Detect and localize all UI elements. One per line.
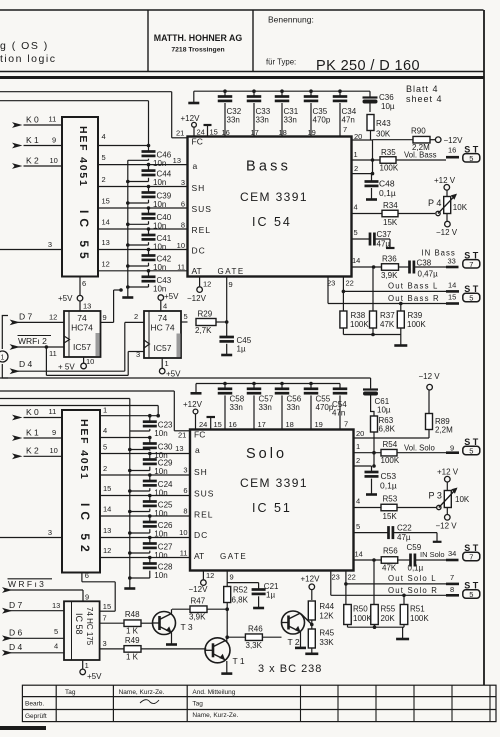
wire IC55 pin 3 to left edge <box>0 240 62 250</box>
svg-text:1: 1 <box>356 442 360 451</box>
wire IC52 pin 12 to CEM AT <box>100 546 190 558</box>
svg-text:R47: R47 <box>191 597 206 606</box>
svg-text:10: 10 <box>179 528 187 537</box>
svg-text:10n: 10n <box>154 467 167 476</box>
ground tick after C22 <box>433 541 442 543</box>
svg-text:−12V: −12V <box>187 294 207 303</box>
svg-text:K 0: K 0 <box>26 114 39 124</box>
svg-text:5: 5 <box>184 312 188 321</box>
wire IC52 pin 3 to left edge <box>0 528 62 538</box>
wire IC52 pin 14 to CEM REL <box>100 505 190 517</box>
svg-text:470p: 470p <box>313 116 331 125</box>
capacitor C35 470p <box>304 89 331 136</box>
svg-text:a: a <box>193 161 198 171</box>
wire CEM 54 pin 2 to C48 <box>352 160 375 181</box>
svg-text:Benennung:: Benennung: <box>268 15 314 25</box>
svg-text:11: 11 <box>180 549 188 558</box>
wire CEM 54 pin 14 to R36 <box>352 256 382 269</box>
svg-text:14: 14 <box>103 505 111 514</box>
resistor R56 47K <box>381 547 410 573</box>
svg-text:FC: FC <box>192 137 203 147</box>
wire IC55 pin 5 to CEM a pin 13 <box>98 153 188 165</box>
resistor R50 100K on Out Solo L <box>344 584 373 625</box>
+5V terminal at IC57a pin 13 and IC55 pin 6 <box>58 277 91 311</box>
input D6 arrow to IC58 pin 5 <box>2 627 64 641</box>
svg-text:7: 7 <box>450 573 454 582</box>
svg-text:17: 17 <box>258 420 266 429</box>
svg-text:14: 14 <box>448 281 456 290</box>
resistor R90 2,2M to -12V <box>373 127 464 153</box>
svg-text:21: 21 <box>176 129 184 138</box>
-12V terminal at CEM 51 pin 12 <box>189 571 215 595</box>
ground under R39 <box>394 344 407 347</box>
node gate-R47 junction <box>225 607 229 611</box>
svg-text:C37: C37 <box>377 230 392 239</box>
svg-text:100K: 100K <box>353 614 372 623</box>
net label Out Bass L to connector pin 14 <box>388 281 459 292</box>
wire IC52 pin 2 to CEM SH <box>100 464 190 475</box>
-12V terminal at CEM 54 pin 12 <box>187 277 211 303</box>
svg-text:100K: 100K <box>410 614 429 623</box>
svg-text:1µ: 1µ <box>266 591 275 600</box>
net label Out Bass R to connector ST5 pin 15 <box>388 284 480 304</box>
ground under C45 <box>221 354 232 357</box>
svg-text:23: 23 <box>327 279 335 288</box>
svg-text:+ 5V: + 5V <box>58 363 75 372</box>
resistor R54 100K <box>381 440 447 465</box>
resistor R39 100K on Out Bass R <box>397 302 426 329</box>
svg-text:8: 8 <box>183 507 187 516</box>
svg-text:a: a <box>195 445 200 455</box>
svg-text:And. Mitteilung: And. Mitteilung <box>192 689 235 696</box>
svg-text:47K: 47K <box>380 320 395 329</box>
svg-text:1: 1 <box>354 150 358 159</box>
svg-text:+5V: +5V <box>58 294 73 303</box>
svg-text:15: 15 <box>210 128 218 137</box>
transistor T2 BC238 <box>282 611 305 647</box>
svg-text:6: 6 <box>82 279 86 288</box>
svg-text:R54: R54 <box>383 440 398 449</box>
svg-text:3: 3 <box>48 240 52 249</box>
net label Vol.Solo to connector ST5 pin 9 <box>404 437 480 456</box>
pin numbers on CEM 51 left side <box>175 444 187 558</box>
svg-text:IC 51: IC 51 <box>252 501 292 515</box>
svg-text:IC 55: IC 55 <box>77 210 91 264</box>
svg-text:+5V: +5V <box>166 370 181 379</box>
svg-text:R51: R51 <box>410 605 425 614</box>
svg-text:R35: R35 <box>381 148 396 157</box>
svg-text:12: 12 <box>103 546 111 555</box>
wire Bass top bus <box>194 91 370 95</box>
svg-text:Out Bass L: Out Bass L <box>388 282 439 291</box>
svg-text:10n: 10n <box>154 489 167 498</box>
svg-text:D 7: D 7 <box>19 312 33 322</box>
svg-text:22: 22 <box>348 573 356 582</box>
wire IC52 pin 4 line <box>100 426 150 438</box>
svg-text:9: 9 <box>52 428 56 437</box>
svg-text:AT: AT <box>192 266 202 276</box>
svg-text:R46: R46 <box>248 625 263 634</box>
wire CEM 54 pin 23 stub to Out Bass R <box>327 277 446 304</box>
svg-text:DC: DC <box>192 246 206 256</box>
svg-text:9: 9 <box>52 136 56 145</box>
svg-text:33n: 33n <box>284 116 297 125</box>
svg-text:15K: 15K <box>383 218 398 227</box>
ground under R51 <box>396 638 409 641</box>
resistor R47 3,9K <box>172 597 227 622</box>
svg-text:20: 20 <box>356 429 364 438</box>
resistor R36 3,9K <box>381 255 410 281</box>
svg-text:4: 4 <box>103 426 107 435</box>
capacitor C24 10n <box>130 473 173 497</box>
ground under C21 <box>253 607 264 610</box>
resistor R35 100K <box>380 148 447 173</box>
capacitor C59 0,1u <box>407 543 447 573</box>
svg-text:1: 1 <box>165 359 169 368</box>
svg-text:8: 8 <box>450 585 454 594</box>
svg-text:R34: R34 <box>383 201 398 210</box>
wire T3 collector to R47 <box>171 609 173 613</box>
svg-text:33n: 33n <box>259 403 272 412</box>
svg-text:6: 6 <box>85 571 89 580</box>
wire Solo hold-bus line from left edge <box>0 399 130 432</box>
+5V terminal at IC57b pin 4 <box>158 292 179 311</box>
capacitor C53 0,1u <box>365 471 397 494</box>
sheet number Blatt 4 sheet 4 <box>406 84 443 104</box>
svg-text:Solo: Solo <box>246 446 287 462</box>
wire IC55 pin 4 riser to left edge <box>0 101 149 146</box>
svg-text:10n: 10n <box>153 263 166 272</box>
svg-text:9: 9 <box>85 593 89 602</box>
+5V terminal at IC57b pin 1 <box>159 358 181 379</box>
svg-text:R45: R45 <box>319 629 334 638</box>
wire IC55 pin 14 to CEM REL pin 8 <box>98 218 188 230</box>
title text MATTH. HOHNER AG <box>154 33 243 54</box>
wire IC55 pin 15 to CEM SUS pin 6 <box>98 197 188 209</box>
pin 15 termination bar on CEM 51 <box>207 417 222 430</box>
svg-text:S T: S T <box>464 581 479 591</box>
svg-text:4: 4 <box>54 642 58 651</box>
svg-text:15K: 15K <box>383 512 398 521</box>
wire CEM 54 pin 20 node <box>352 132 373 160</box>
resistor R49 1K <box>124 636 206 662</box>
svg-text:−12 V: −12 V <box>436 522 458 531</box>
svg-text:3: 3 <box>136 350 140 359</box>
wire T1 collector node <box>226 637 228 642</box>
wire IC52 pin 5 to CEM a <box>100 443 190 454</box>
svg-text:10n: 10n <box>154 429 167 438</box>
resistor R89 2,2M <box>374 414 453 439</box>
wire CEM 54 GATE pin 9 riser <box>227 277 233 322</box>
svg-text:12: 12 <box>49 313 57 322</box>
wire CEM 54 pin 1 volume line <box>352 150 381 162</box>
svg-text:g ( OS ): g ( OS ) <box>0 40 49 52</box>
input WRF1-2 arrow to IC57a clock pin 11 <box>10 336 64 359</box>
svg-text:R52: R52 <box>233 586 248 595</box>
svg-text:R55: R55 <box>381 605 396 614</box>
svg-text:3,3K: 3,3K <box>246 641 263 650</box>
capacitor C33 33n <box>247 89 271 136</box>
svg-text:Out Bass R: Out Bass R <box>388 294 440 303</box>
input D7 arrow to IC57a pin 12 <box>10 312 64 326</box>
svg-text:SH: SH <box>192 183 206 193</box>
svg-text:Vol. Bass: Vol. Bass <box>404 151 437 160</box>
svg-text:12K: 12K <box>319 612 334 621</box>
svg-text:3,9K: 3,9K <box>381 271 398 280</box>
resistor R38 100K on Out Bass L <box>340 291 369 329</box>
-12V terminal below P4 <box>436 214 458 238</box>
capacitor C25 10n <box>130 494 173 518</box>
ground under T3 emitter <box>166 633 177 645</box>
+5V terminal at IC57a pin 10 <box>58 357 94 372</box>
svg-text:3: 3 <box>103 639 107 648</box>
pin 15 termination bar <box>204 125 218 137</box>
svg-text:47n: 47n <box>332 409 345 418</box>
net label Out Solo R to connector ST5 pin 8 <box>388 581 480 600</box>
svg-text:R37: R37 <box>380 311 395 320</box>
wire CEM 54 pin 22 stub to Out Bass L <box>342 277 446 294</box>
+5V terminal at IC58 pin 1 <box>80 660 102 681</box>
svg-text:R50: R50 <box>353 605 368 614</box>
capacitor C44 10n <box>128 163 172 187</box>
svg-text:74: 74 <box>77 313 87 323</box>
resistor R52 6,8K in gate line <box>224 586 249 638</box>
svg-text:14: 14 <box>355 550 363 559</box>
svg-text:19: 19 <box>315 420 323 429</box>
svg-text:IN Solo: IN Solo <box>420 550 445 559</box>
capacitor C21 1u <box>227 582 279 607</box>
svg-text:10: 10 <box>177 241 185 250</box>
svg-text:7: 7 <box>469 260 473 269</box>
capacitor C54 47n <box>332 384 348 430</box>
svg-text:Out Solo R: Out Solo R <box>388 586 438 595</box>
svg-text:2,2M: 2,2M <box>435 426 453 435</box>
svg-text:+5V: +5V <box>87 672 102 681</box>
svg-text:33n: 33n <box>230 403 243 412</box>
svg-text:1: 1 <box>103 406 107 415</box>
svg-text:K 0: K 0 <box>26 407 39 417</box>
input D7 arrow to IC58 pin 13 <box>2 600 64 614</box>
svg-text:C38: C38 <box>417 259 432 268</box>
svg-text:5: 5 <box>469 447 473 456</box>
wire T2 collector to R44 R45 junction <box>301 614 312 625</box>
svg-text:34: 34 <box>448 549 456 558</box>
transistor T3 BC238 <box>153 612 193 635</box>
svg-text:15: 15 <box>103 602 111 611</box>
svg-text:5: 5 <box>354 228 358 237</box>
wire CEM 51 pin 2 to C53 <box>354 453 376 471</box>
capacitor C29 10n <box>130 452 173 476</box>
svg-text:4: 4 <box>354 203 358 212</box>
svg-text:R90: R90 <box>411 127 426 136</box>
capacitor C57 33n <box>247 382 274 430</box>
svg-text:−12V: −12V <box>189 585 209 594</box>
svg-text:11: 11 <box>177 262 185 271</box>
svg-text:+12V: +12V <box>181 114 201 123</box>
svg-text:1 K: 1 K <box>126 627 139 636</box>
svg-text:R53: R53 <box>383 495 398 504</box>
resistor R45 33K <box>308 628 334 653</box>
net label IN Solo to connector ST7 pin 34 <box>420 543 480 562</box>
svg-text:2: 2 <box>103 464 107 473</box>
op-amp synth chip U IC54 CEM 3391 Bass box <box>188 137 352 277</box>
resistor R44 12K <box>308 601 334 628</box>
svg-text:S T: S T <box>464 144 479 154</box>
svg-text:10K: 10K <box>455 495 470 504</box>
svg-text:8: 8 <box>181 221 185 230</box>
svg-text:10n: 10n <box>154 509 167 518</box>
svg-text:13: 13 <box>102 238 110 247</box>
svg-text:14: 14 <box>352 256 360 265</box>
svg-text:SUS: SUS <box>192 204 212 214</box>
svg-text:R44: R44 <box>319 602 334 611</box>
wire IC57a pin 9 output <box>101 288 123 322</box>
svg-text:WRFı 2: WRFı 2 <box>18 336 47 346</box>
pin numbers 16 17 18 19 7 on CEM 54 top <box>222 125 348 137</box>
svg-text:+12V: +12V <box>301 575 321 584</box>
svg-text:13: 13 <box>175 444 183 453</box>
svg-text:10µ: 10µ <box>381 102 395 111</box>
svg-text:D 7: D 7 <box>9 600 23 610</box>
svg-text:13: 13 <box>173 156 181 165</box>
input D4 arrow riser to IC57b pin 2 <box>10 312 144 374</box>
wire CEM 51 pin 5 to C22 <box>354 522 389 533</box>
input K0 arrow to IC55 pin 11 <box>12 114 62 128</box>
svg-text:100K: 100K <box>381 456 400 465</box>
svg-text:−12 V: −12 V <box>419 372 441 381</box>
svg-text:1: 1 <box>1 355 5 362</box>
resistor R48 1K <box>124 610 153 636</box>
capacitor C41 10n <box>128 227 172 251</box>
svg-text:6: 6 <box>183 486 187 495</box>
svg-text:11: 11 <box>49 349 57 358</box>
svg-text:5: 5 <box>469 590 473 599</box>
resistor R34 15K <box>382 201 435 227</box>
svg-text:R29: R29 <box>198 310 213 319</box>
svg-text:Vol. Solo: Vol. Solo <box>404 443 435 452</box>
svg-text:5: 5 <box>469 294 473 303</box>
svg-text:Bearb.: Bearb. <box>25 701 44 708</box>
wire IC52 pin 6 to IC58 pin 15 <box>82 571 115 611</box>
svg-text:GATE: GATE <box>218 267 245 276</box>
svg-text:24: 24 <box>199 420 207 429</box>
svg-text:16: 16 <box>448 146 456 155</box>
wire hold-cap ground bus <box>126 160 130 296</box>
multiplexer IC55 HEF 4051 box <box>62 117 98 277</box>
bottom title table <box>22 685 496 721</box>
svg-text:10: 10 <box>50 156 58 165</box>
svg-text:15: 15 <box>214 420 222 429</box>
svg-text:20: 20 <box>354 132 362 141</box>
svg-text:33K: 33K <box>319 638 334 647</box>
svg-text:6,8K: 6,8K <box>379 425 396 434</box>
node FC line to left edge <box>0 92 188 138</box>
svg-text:C22: C22 <box>397 524 412 533</box>
ground under C48 <box>366 198 377 201</box>
capacitor C45 1u <box>219 320 251 354</box>
svg-text:3,9K: 3,9K <box>189 613 206 622</box>
svg-text:10: 10 <box>86 357 94 366</box>
svg-text:13: 13 <box>83 302 91 311</box>
svg-text:1: 1 <box>85 661 89 670</box>
svg-text:REL: REL <box>192 225 212 235</box>
svg-text:HEF 4051: HEF 4051 <box>77 126 89 188</box>
svg-text:5: 5 <box>469 154 473 163</box>
resistor R55 20K from pin 14 node <box>371 560 396 625</box>
potentiometer P4 10K <box>428 194 468 216</box>
svg-text:5: 5 <box>356 522 360 531</box>
svg-text:IC57: IC57 <box>73 342 91 352</box>
wire IC58 pin 7 to R48 <box>100 614 124 624</box>
svg-text:Bass: Bass <box>246 159 291 175</box>
svg-text:2: 2 <box>354 164 358 173</box>
title text OS logic <box>0 40 56 65</box>
resistor R37 47K from pin 14 node <box>370 267 396 329</box>
svg-text:10n: 10n <box>153 243 166 252</box>
svg-text:D 4: D 4 <box>9 642 23 652</box>
ground of hold-cap bus <box>122 296 133 299</box>
page corner mark <box>0 726 46 730</box>
wire Solo pin 1 line from left edge <box>0 406 158 416</box>
svg-text:7218 Trossingen: 7218 Trossingen <box>171 47 224 54</box>
svg-text:C53: C53 <box>381 471 397 481</box>
svg-text:SH: SH <box>194 467 208 477</box>
svg-text:33n: 33n <box>287 403 300 412</box>
svg-text:HC74: HC74 <box>71 323 93 333</box>
svg-text:10n: 10n <box>153 222 166 231</box>
svg-text:1µ: 1µ <box>237 345 246 354</box>
svg-text:D 4: D 4 <box>19 359 33 369</box>
resistor R29 2,7K <box>195 310 227 336</box>
synth chip IC51 CEM 3391 Solo box <box>190 430 354 571</box>
svg-text:7: 7 <box>469 553 473 562</box>
resistor R53 15K <box>381 495 436 522</box>
-12V terminal below P3 <box>436 508 458 531</box>
capacitor C43 10n <box>128 269 172 293</box>
svg-text:33: 33 <box>448 257 456 266</box>
capacitor C28 10n <box>130 556 173 580</box>
svg-text:10n: 10n <box>154 551 167 560</box>
svg-text:−12V: −12V <box>444 136 464 145</box>
svg-text:+5V: +5V <box>164 292 179 301</box>
svg-text:13: 13 <box>103 526 111 535</box>
resistor R46 3,3K <box>227 625 281 651</box>
-12V terminal above R89 <box>419 372 441 414</box>
svg-text:PK 250 / D 160: PK 250 / D 160 <box>316 58 420 74</box>
wire Solo hold-cap ground bus <box>128 431 132 588</box>
capacitor C32 33n <box>218 89 242 136</box>
svg-text:AT: AT <box>194 551 204 561</box>
svg-text:GATE: GATE <box>220 552 247 561</box>
svg-text:DC: DC <box>194 530 208 540</box>
svg-text:SUS: SUS <box>194 489 214 499</box>
svg-text:3: 3 <box>181 178 185 187</box>
ground at Solo bus left end <box>191 384 202 394</box>
svg-text:2: 2 <box>134 312 138 321</box>
svg-text:CEM 3391: CEM 3391 <box>240 190 308 204</box>
resistor R51 100K on Out Solo R <box>400 594 429 625</box>
input K0 arrow to IC52 pin 11 <box>12 407 62 421</box>
svg-text:12: 12 <box>102 259 110 268</box>
wire CEM 51 GATE pin 9 down <box>227 571 233 587</box>
svg-text:10µ: 10µ <box>377 406 391 415</box>
svg-text:20K: 20K <box>381 614 396 623</box>
svg-text:9: 9 <box>103 313 107 322</box>
capacitor C31 33n <box>275 89 299 136</box>
resistor R63 6,8K <box>371 406 396 438</box>
svg-text:0,1µ: 0,1µ <box>380 481 397 491</box>
wire CEM 51 pin 23 stub to Out Solo R <box>331 571 446 596</box>
